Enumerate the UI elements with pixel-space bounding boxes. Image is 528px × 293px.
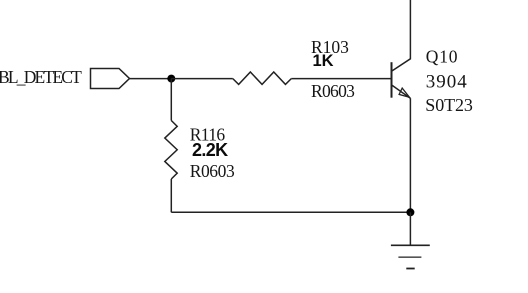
footprint R0603 (R103) (311, 81, 355, 101)
wire node A down to R116 (170, 79, 172, 121)
transistor Q10 base bar (391, 62, 393, 97)
wire port to node A (130, 78, 172, 80)
port BL_DETECT (91, 69, 130, 89)
label R116 (190, 125, 226, 145)
footprint R0603 (R116) (190, 161, 235, 181)
node A junction dot (167, 75, 175, 83)
node B junction dot (406, 208, 414, 216)
wire R116 to bottom rail (170, 179, 172, 212)
svg-text:3904: 3904 (426, 71, 468, 92)
value 1K (313, 52, 334, 70)
wire node B to ground (409, 212, 411, 245)
label R103 (311, 37, 349, 57)
svg-text:S0T23: S0T23 (425, 95, 473, 115)
transistor Q10 emitter (392, 85, 411, 98)
wire node A to R103 (171, 78, 233, 80)
transistor Q10 emitter arrowhead (399, 88, 409, 97)
svg-text:R0603: R0603 (311, 81, 355, 101)
value 2.2K (192, 140, 228, 160)
svg-text:1K: 1K (313, 52, 334, 70)
resistor R116 (165, 121, 177, 180)
svg-text:Q10: Q10 (426, 47, 459, 67)
label Q10 (426, 47, 459, 67)
footprint S0T23 (425, 95, 473, 115)
transistor Q10 collector (392, 0, 411, 71)
net label BL_DETECT (0, 67, 82, 87)
svg-text:R0603: R0603 (190, 161, 235, 181)
svg-text:2.2K: 2.2K (192, 140, 228, 160)
wire bottom rail (171, 211, 410, 213)
svg-text:BL_DETECT: BL_DETECT (0, 67, 82, 87)
wire emitter to node B (409, 98, 411, 212)
ground (391, 245, 430, 268)
wire R103 to base of Q10 (291, 78, 391, 80)
resistor R103 (233, 72, 291, 84)
value 3904 (426, 71, 468, 92)
